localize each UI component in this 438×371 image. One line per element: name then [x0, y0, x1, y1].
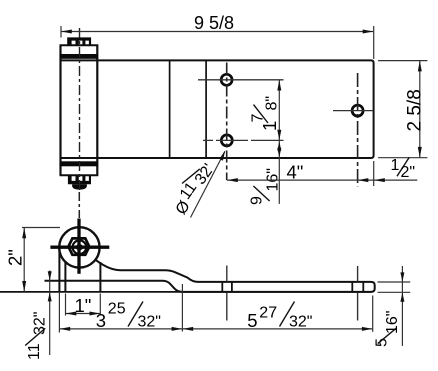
svg-text:9 5/8: 9 5/8	[194, 13, 234, 33]
dim 4 line	[227, 179, 417, 181]
dim 1 left arrow	[66, 312, 77, 316]
dim 9/16 bottom arrow	[277, 148, 281, 157]
svg-text:25: 25	[108, 301, 126, 318]
dim 1 7/8 text (rotated, diagonal fraction)	[250, 96, 281, 131]
dim 2 line	[23, 228, 25, 292]
bottom dome (pin end)	[72, 184, 87, 189]
dim 5 27/32 right arrow	[362, 327, 373, 331]
dim 2 bottom arrow	[22, 281, 26, 292]
dim 1 right extension	[99, 294, 101, 316]
boss right edge	[99, 262, 101, 292]
knuckle left tangent edge	[58, 249, 60, 292]
dim 5/16 text (rotated, diagonal fraction)	[374, 311, 402, 347]
joggle line 1 (bend line)	[169, 60, 171, 158]
hole H2	[221, 135, 232, 146]
dim 5 27/32 left arrow	[183, 327, 194, 331]
hole H1	[221, 74, 232, 85]
joggle extension line	[181, 284, 183, 332]
svg-text:32": 32"	[289, 314, 312, 331]
dim 11/32 text (rotated, diagonal fraction)	[25, 312, 48, 360]
hole H2 horizontal centerline	[203, 139, 284, 141]
svg-text:5: 5	[247, 310, 257, 331]
svg-text:2": 2"	[5, 249, 26, 266]
dim 11/32 lower arrow (points up)	[48, 292, 52, 301]
svg-text:11: 11	[26, 343, 43, 360]
hole H1/H2 side centerline	[226, 266, 228, 282]
dim 1 7/8 line	[278, 80, 280, 141]
strap end extension line	[372, 296, 374, 332]
leader line for hole diameter	[191, 152, 225, 218]
dim 1/2 outside arrow	[374, 178, 385, 182]
hole H1/H2 side ticks	[221, 282, 223, 292]
dim 3 25/32 text	[96, 301, 161, 332]
hole H3 vertical centerline	[357, 73, 359, 186]
dim 9/16 line and tail	[278, 140, 280, 204]
dim 4 right arrow	[358, 178, 369, 182]
knuckle outer circle	[59, 227, 99, 267]
bottom castellated nut	[68, 175, 91, 184]
svg-text:1: 1	[391, 157, 400, 174]
svg-text:16": 16"	[384, 311, 401, 334]
dim 1 right arrow	[90, 312, 101, 316]
svg-text:27: 27	[259, 305, 277, 322]
boss left edge	[64, 262, 66, 292]
knuckle crosshair horizontal	[50, 246, 109, 249]
svg-text:3: 3	[96, 310, 106, 331]
svg-text:32": 32"	[32, 312, 49, 335]
dim 9/16 top arrow	[277, 141, 281, 150]
pin center dot	[76, 244, 84, 250]
dim 5 27/32 line	[182, 328, 372, 330]
hole H1 horizontal centerline	[198, 79, 284, 81]
dim 1/2 text (diagonal fraction)	[391, 157, 416, 181]
joggle line 2 (bend line)	[205, 60, 207, 158]
barrel top thick band	[60, 54, 99, 59]
hole H3 horizontal centerline	[333, 110, 373, 112]
dim 11/32 upper arrow (points down)	[48, 271, 52, 280]
knuckle tangent extension (down)	[58, 292, 60, 333]
strap top profile (knuckle to end)	[45, 260, 375, 292]
svg-text:9: 9	[249, 196, 266, 205]
dim 1 7/8 top arrow	[277, 80, 281, 91]
hole H3	[352, 105, 363, 116]
dim 9 5/8 line	[61, 31, 373, 33]
plate outline (top view leaf)	[61, 60, 374, 158]
dim 9 5/8 left extension	[60, 26, 62, 38]
svg-text:8": 8"	[264, 96, 281, 111]
dim 9 5/8 right arrow	[363, 30, 374, 34]
strap bottom baseline (extends to left margin)	[0, 291, 372, 293]
leader text Ø11/32 (rotated along leader)	[173, 161, 218, 218]
barrel centerline (dash-dot)	[79, 28, 81, 191]
dim 2 5/8 top arrow	[418, 61, 422, 72]
projection centerline between views	[78, 192, 80, 218]
dim 5/16 upper arrow (points down)	[400, 272, 404, 281]
knuckle crosshair vertical	[77, 219, 80, 274]
dim 2 5/8 top extension	[378, 60, 427, 62]
dim 9 5/8 right extension	[373, 26, 375, 59]
dim 5/16 top extension	[378, 281, 411, 283]
dim 3 25/32 left arrow	[60, 327, 71, 331]
dim 9 5/8 left arrow	[61, 30, 72, 34]
hex nut	[68, 238, 89, 254]
dim 2 5/8 line	[419, 61, 421, 158]
dim 5/16 lower arrow (points up)	[400, 293, 404, 302]
svg-text:32": 32"	[138, 314, 161, 331]
dim 3 25/32 right arrow	[172, 327, 183, 331]
svg-text:2": 2"	[401, 164, 416, 181]
holes H1-H2 vertical centerline	[226, 63, 228, 181]
dim 4 left arrow	[227, 178, 238, 182]
dim 2 extension (knuckle top)	[22, 227, 60, 229]
dim 2 5/8 bottom extension	[378, 157, 427, 159]
barrel left wall	[59, 45, 61, 175]
barrel bottom cap edge	[60, 174, 99, 176]
dim 1 7/8 bottom arrow	[277, 130, 281, 141]
dim 1/2 right extension	[373, 161, 375, 186]
dim 5/16 bottom extension	[378, 291, 411, 293]
dim 2 5/8 bottom arrow	[418, 147, 422, 158]
leader arrow	[219, 150, 225, 161]
dim 11/32 line	[49, 271, 51, 356]
dim 5/16 line	[401, 266, 403, 346]
dim 1 line	[66, 313, 101, 315]
barrel right wall	[96, 45, 98, 175]
barrel top cap edge	[60, 44, 99, 46]
top castellated nut	[67, 37, 91, 45]
svg-text:2 5/8: 2 5/8	[405, 89, 426, 131]
svg-text:4": 4"	[287, 162, 304, 183]
dim 9/16 text (rotated, diagonal fraction)	[249, 168, 282, 205]
dim 1 left extension	[65, 294, 67, 316]
dim 3 25/32 line	[59, 328, 182, 330]
pin inner circle	[73, 240, 87, 254]
dim 2 top arrow	[22, 228, 26, 239]
svg-text:1": 1"	[75, 295, 92, 316]
dim 5 27/32 text	[247, 302, 312, 332]
barrel bottom thick band	[60, 161, 99, 166]
hole H3 side centerline	[357, 266, 359, 282]
hole H3 side ticks	[351, 282, 353, 292]
